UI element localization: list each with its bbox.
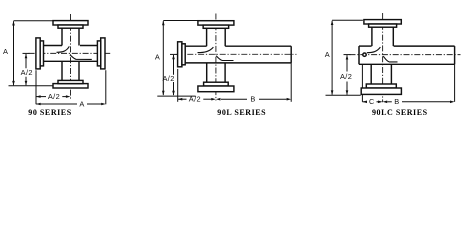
svg-text:90LC SERIES: 90LC SERIES bbox=[372, 108, 428, 117]
svg-text:A/2: A/2 bbox=[340, 72, 352, 81]
svg-text:A/2: A/2 bbox=[162, 74, 174, 83]
svg-text:A/2: A/2 bbox=[48, 92, 60, 101]
svg-text:A/2: A/2 bbox=[21, 68, 33, 77]
svg-text:C: C bbox=[369, 97, 375, 106]
svg-text:A: A bbox=[325, 50, 330, 59]
svg-text:A: A bbox=[155, 52, 160, 61]
svg-text:A/2: A/2 bbox=[189, 95, 201, 104]
svg-text:90 SERIES: 90 SERIES bbox=[28, 108, 71, 117]
svg-text:A: A bbox=[79, 100, 84, 109]
svg-text:A: A bbox=[3, 47, 8, 56]
svg-text:90L SERIES: 90L SERIES bbox=[217, 108, 266, 117]
svg-text:B: B bbox=[250, 95, 255, 104]
svg-text:B: B bbox=[394, 97, 399, 106]
